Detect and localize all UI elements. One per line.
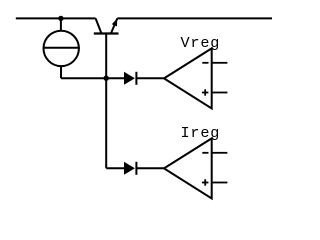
svg-text:Vreg: Vreg: [181, 34, 221, 52]
svg-text:Ireg: Ireg: [181, 124, 221, 142]
